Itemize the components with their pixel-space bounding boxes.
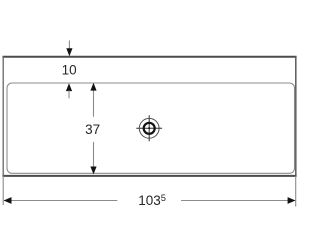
dim 10 bottom arrow: [66, 83, 72, 91]
svg-text:10: 10: [62, 63, 77, 78]
tap hole symbol: center dot: [148, 127, 150, 129]
basin outer outline left edge: [2, 56, 4, 177]
dim 37 line upper: [93, 90, 95, 117]
dim 10 bottom leader: [68, 91, 70, 99]
dim 37 down arrow: [90, 167, 96, 175]
svg-text:37: 37: [85, 122, 100, 137]
dim 10 top leader: [68, 41, 70, 50]
dim 10 top arrow: [66, 48, 72, 56]
dim 103.5 left arrow: [4, 197, 12, 204]
extension line left: [2, 176, 4, 205]
tap hole symbol: cross vertical: [148, 115, 150, 141]
tap hole symbol: cross horizontal: [136, 127, 162, 129]
tap hole symbol: outer circle: [139, 118, 159, 138]
dim 103.5 line right: [181, 200, 295, 202]
basin inner rim (rounded): [7, 82, 295, 84]
basin outer outline top edge: [2, 56, 296, 58]
dim 103.5 line left: [4, 200, 117, 202]
basin outer outline bottom edge: [2, 175, 296, 177]
extension line right: [295, 176, 297, 206]
dim 37 line lower: [93, 142, 95, 168]
basin outer outline right edge: [295, 56, 297, 177]
dim 103.5 right arrow: [288, 197, 296, 204]
dim 37 up arrow: [90, 83, 96, 91]
tap hole symbol: inner circle: [144, 123, 155, 134]
